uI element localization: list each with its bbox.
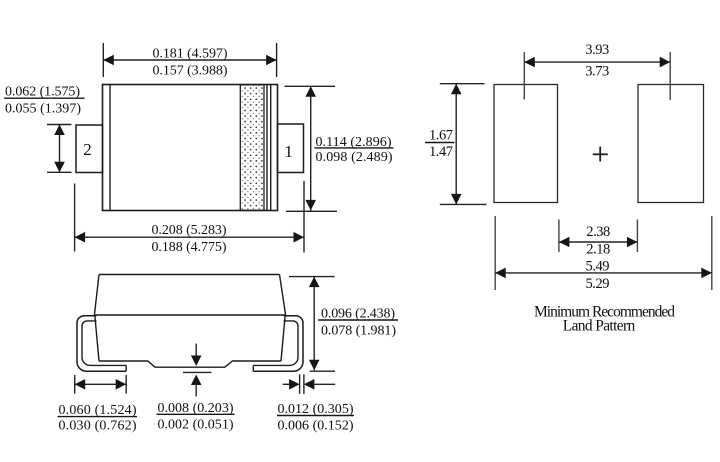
dimension 1.67 arrow <box>455 84 457 205</box>
dimension 5.49/5.29 extension lines <box>494 216 496 290</box>
cathode end line 2 <box>270 85 272 211</box>
dimension 0.012 right arrow <box>304 379 315 390</box>
svg-text:0.188 (4.775): 0.188 (4.775) <box>152 240 227 255</box>
cathode band (stippled) <box>240 85 264 210</box>
svg-text:0.012 (0.305): 0.012 (0.305) <box>278 402 354 417</box>
side view body right upper slope <box>280 275 286 316</box>
dimension 2.38/2.18 ticks <box>558 220 560 253</box>
dimension 0.096 bottom tick <box>310 370 335 372</box>
cathode end line 1 <box>266 85 268 211</box>
svg-text:2.18: 2.18 <box>586 242 610 258</box>
svg-text:3.73: 3.73 <box>585 64 609 80</box>
dimension 2.38 arrow line <box>559 241 638 243</box>
dimension 0.060 arrow <box>75 383 127 385</box>
fraction bar <box>277 415 354 417</box>
svg-text:0.078 (1.981): 0.078 (1.981) <box>321 324 396 339</box>
svg-text:3.93: 3.93 <box>585 42 609 58</box>
svg-text:1: 1 <box>284 142 293 161</box>
dimension 0.181/0.157 arrow line <box>103 59 276 61</box>
svg-text:0.030 (0.762): 0.030 (0.762) <box>59 419 137 434</box>
svg-text:0.002 (0.051): 0.002 (0.051) <box>158 417 234 432</box>
side view body left lower slope <box>95 315 99 361</box>
top view anode end line <box>109 85 111 211</box>
svg-text:0.208 (5.283): 0.208 (5.283) <box>152 223 227 238</box>
svg-text:2.38: 2.38 <box>586 224 610 240</box>
standoff down arrow <box>195 344 197 360</box>
right lead end cap <box>252 365 254 371</box>
svg-text:0.062 (1.575): 0.062 (1.575) <box>5 85 80 100</box>
left lead end cap <box>125 365 127 371</box>
dimension 0.062 ticks <box>47 124 72 126</box>
dimension 0.114/0.098 ticks <box>285 85 336 87</box>
standoff up arrow <box>191 375 202 386</box>
svg-text:0.055 (1.397): 0.055 (1.397) <box>5 102 81 117</box>
left lead outer contour <box>77 316 126 372</box>
dimension 0.062 arrow <box>59 125 61 173</box>
dimension 3.93/3.73 extension lines <box>523 52 525 100</box>
side view parting line <box>94 314 285 316</box>
dimension 1.67/1.47 ticks <box>440 83 485 85</box>
right lead outer contour <box>253 316 303 372</box>
fraction bar <box>4 97 85 99</box>
side view body left upper slope <box>94 275 99 316</box>
svg-text:0.096 (2.438): 0.096 (2.438) <box>321 306 395 321</box>
svg-text:1.47: 1.47 <box>429 144 453 160</box>
side view body right lower slope <box>281 315 285 361</box>
dimension 0.208 arrow line <box>75 236 304 238</box>
svg-text:0.098 (2.489): 0.098 (2.489) <box>316 150 393 165</box>
dimension 0.208/0.188 extension lines <box>74 184 76 252</box>
svg-text:0.006 (0.152): 0.006 (0.152) <box>278 418 354 433</box>
fraction bar <box>315 147 394 149</box>
top view body <box>103 85 278 211</box>
svg-text:Land Pattern: Land Pattern <box>563 318 636 335</box>
svg-text:1.67: 1.67 <box>429 127 453 143</box>
fraction bar <box>425 142 455 144</box>
svg-text:2: 2 <box>83 140 92 159</box>
svg-text:0.060 (1.524): 0.060 (1.524) <box>59 403 137 418</box>
svg-text:0.157 (3.988): 0.157 (3.988) <box>153 64 228 79</box>
right lead inner contour <box>253 321 298 366</box>
svg-text:5.29: 5.29 <box>586 276 610 292</box>
dimension 0.114 arrow <box>310 86 312 211</box>
left lead inner contour <box>82 321 126 366</box>
dimension 0.181/0.157 body width: extension lines <box>102 43 104 77</box>
terminal 1 (right lead, top view) <box>278 124 304 173</box>
svg-text:0.181 (4.597): 0.181 (4.597) <box>153 47 228 62</box>
fraction bar <box>58 416 138 418</box>
dimension 0.012 ticks <box>299 374 301 394</box>
land pattern left pad <box>494 85 558 203</box>
dimension 5.49 arrow line <box>495 272 712 274</box>
land pattern center cross <box>593 153 608 155</box>
fraction bar <box>157 413 235 415</box>
side view body bottom with standoff <box>99 361 281 367</box>
side view body top <box>99 274 280 276</box>
terminal 2 (left lead, top view) <box>76 125 103 173</box>
seating plane reference line <box>183 371 211 373</box>
dimension 0.060 ticks <box>74 375 76 394</box>
land pattern right pad <box>638 85 704 203</box>
dimension 0.012 left arrow <box>283 383 290 385</box>
dimension 0.096/0.078 top tick <box>289 276 335 278</box>
svg-text:5.49: 5.49 <box>586 258 610 274</box>
dimension 3.93 arrow line <box>524 61 670 63</box>
dimension 0.096 arrow <box>313 277 315 371</box>
fraction bar <box>318 319 398 321</box>
svg-text:0.008 (0.203): 0.008 (0.203) <box>158 401 234 416</box>
